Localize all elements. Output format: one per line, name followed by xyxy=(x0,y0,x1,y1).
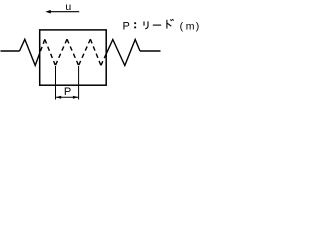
thread solid right xyxy=(106,40,140,66)
thread dashed inside nut xyxy=(40,39,107,65)
dimension arrow P xyxy=(56,96,79,98)
svg-text:(: ( xyxy=(180,20,184,32)
svg-text:m: m xyxy=(186,20,195,32)
svg-text:P: P xyxy=(123,20,130,32)
arrowhead of u arrow xyxy=(45,10,50,14)
extension line left xyxy=(55,66,57,100)
svg-text:): ) xyxy=(196,20,200,32)
svg-text:P: P xyxy=(64,86,71,98)
wire left xyxy=(1,50,20,52)
wire right xyxy=(140,50,161,52)
katakana RI xyxy=(144,21,148,29)
velocity arrow u xyxy=(50,11,79,13)
lead screw diagram xyxy=(0,0,207,100)
katakana DO xyxy=(167,19,174,29)
svg-text:u: u xyxy=(65,1,71,13)
thread solid left xyxy=(20,39,40,65)
katakana long vowel bar xyxy=(153,24,161,26)
legend colon (fullwidth) xyxy=(134,22,136,24)
extension line right xyxy=(78,66,80,100)
nut rectangle xyxy=(40,30,107,85)
